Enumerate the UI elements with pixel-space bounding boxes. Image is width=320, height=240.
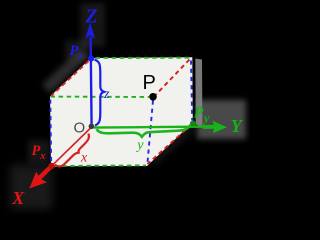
compression halo around X arrow and label <box>10 165 52 209</box>
svg-text:x: x <box>39 151 45 162</box>
svg-text:y: y <box>202 111 210 125</box>
box edge G-P (top front, y-direction, green dashed) <box>51 96 150 98</box>
svg-text:z: z <box>103 87 110 102</box>
point P_z (blue dot on z axis) <box>88 55 94 61</box>
box edge F-B (back right vertical, z-direction, blue dashed) <box>191 61 192 121</box>
box edge C-G (front left vertical, z-direction, blue dashed) <box>49 100 52 164</box>
z brace (blue curly brace along z axis) <box>95 60 105 126</box>
x-axis thick arrow segment P_x to tip (red) <box>29 166 52 189</box>
z-axis (blue, vertical) <box>85 23 95 127</box>
box edge C-D (bottom front, y-direction, green dashed) <box>54 164 146 167</box>
svg-text:y: y <box>135 138 144 153</box>
compression halo along bottom-right edge <box>152 128 191 163</box>
box edge D-P (front right vertical, z-direction, blue dashed) <box>148 101 154 163</box>
label x (brace label, red) <box>80 151 88 166</box>
svg-text:x: x <box>80 151 88 166</box>
svg-text:P: P <box>70 43 79 59</box>
svg-text:P: P <box>32 143 41 159</box>
label P_x (red) <box>32 143 46 162</box>
x-axis thin segment O to P_x (red) <box>52 127 92 166</box>
label Z (blue axis label) <box>85 7 98 28</box>
compression halo around P_z label <box>65 40 90 60</box>
point P (black dot) <box>149 93 157 101</box>
x brace (red curly brace along x axis) <box>55 134 89 167</box>
point P_y (dark green dot on y axis) <box>190 121 196 127</box>
compression halo along top-left edge <box>46 53 84 89</box>
compression halo around P_x label <box>28 140 50 163</box>
box right-side shadow <box>195 59 202 127</box>
label y (brace label, green) <box>135 138 144 153</box>
origin O junction dot <box>89 124 95 130</box>
label P (point label, black sans) <box>143 72 156 94</box>
compression halo along x-axis segment <box>56 132 86 161</box>
box edge B-D (bottom right, x-direction, red dashed) <box>148 125 192 165</box>
compression halo around Y arrow and P_y label <box>197 100 246 139</box>
cuboid silhouette face fill <box>50 57 193 166</box>
box edge E-F (top back, y-direction, green dashed) <box>96 57 191 59</box>
label P_z (blue) <box>70 43 84 61</box>
box edge F-P (top right, x-direction, red dashed) <box>156 60 190 95</box>
point P_x (dark red dot on x axis) <box>48 163 54 169</box>
svg-text:O: O <box>74 120 86 137</box>
label Y (green axis label) <box>231 116 244 136</box>
y-axis (green, horizontal) <box>94 121 228 133</box>
svg-text:Z: Z <box>85 7 98 28</box>
y brace (green curly brace along y axis) <box>97 125 191 137</box>
label O (origin, gray) <box>74 120 86 137</box>
compression halo around Z label and arrow <box>80 3 105 47</box>
label X (red axis label) <box>11 188 25 208</box>
box edge E-G (top left, x-direction, red dashed) <box>52 61 89 96</box>
svg-text:P: P <box>143 72 156 94</box>
label z (brace label, blue) <box>103 87 110 102</box>
label P_y (green) <box>193 104 211 124</box>
svg-text:P: P <box>193 104 204 121</box>
svg-text:X: X <box>11 188 25 208</box>
